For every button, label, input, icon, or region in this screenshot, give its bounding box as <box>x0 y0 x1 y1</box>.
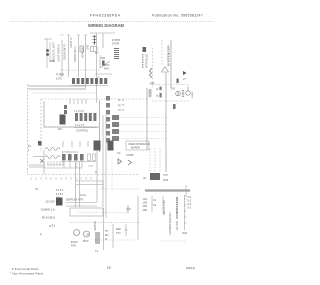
rotated label dispenser <box>167 45 171 66</box>
overload text <box>171 88 176 91</box>
dashed sense line <box>152 48 154 88</box>
wire stub <box>102 33 104 48</box>
bus line lower <box>28 88 86 90</box>
lamp L1 wire <box>44 39 52 68</box>
timer side text <box>143 177 146 180</box>
date code <box>186 266 195 270</box>
dotted drop <box>111 158 113 189</box>
defrost thermostat X <box>40 159 44 163</box>
signal text <box>128 143 150 150</box>
wire <box>112 224 114 248</box>
motor M letter <box>87 232 89 236</box>
dotted harness lines <box>119 118 166 139</box>
dashed bus right <box>150 84 190 86</box>
svg-text:CONTROL: CONTROL <box>76 130 89 133</box>
connector label block <box>56 73 64 81</box>
lamp L1 <box>46 49 49 56</box>
water valve bar <box>142 54 144 68</box>
svg-text:M: M <box>87 232 89 236</box>
board label <box>75 124 89 133</box>
defrost text <box>66 199 83 202</box>
right bus wire <box>146 88 148 150</box>
svg-text:FREEZER LIGHT: FREEZER LIGHT <box>53 42 56 62</box>
wire stub left <box>88 165 93 167</box>
svg-text:g 5 t: g 5 t <box>49 224 55 228</box>
svg-text:1a Fe: 1a Fe <box>80 194 87 197</box>
bracket with ticks <box>185 195 187 230</box>
label column door switch <box>64 44 67 60</box>
junction arrow <box>126 205 131 213</box>
svg-text:12 GA*: 12 GA* <box>45 200 56 204</box>
svg-text:BOARD: BOARD <box>131 147 140 150</box>
label column <box>87 44 90 50</box>
comp cluster text <box>117 152 134 157</box>
condenser fan motor M2 <box>186 87 190 96</box>
rotated text compressor <box>175 196 179 219</box>
wire <box>78 35 80 77</box>
wires into board <box>70 99 86 104</box>
wire shelf <box>95 73 112 75</box>
small blob <box>177 79 179 84</box>
wire riser <box>170 40 172 88</box>
wire <box>85 35 87 88</box>
mullion heater labels <box>112 39 120 46</box>
heater hatch block <box>114 49 119 59</box>
text box signal <box>126 141 149 150</box>
svg-text:16A: 16A <box>143 197 148 201</box>
svg-text:2GR: 2GR <box>182 232 187 235</box>
svg-text:4 3 2 1 6: 4 3 2 1 6 <box>75 124 85 127</box>
wire tick tops <box>61 34 88 36</box>
wire drop <box>103 208 105 250</box>
harness connector stack <box>112 115 119 141</box>
wire top rail <box>90 32 115 34</box>
switch S3 label <box>101 57 106 60</box>
svg-text:2 FC: 2 FC <box>56 77 62 81</box>
dashed bus right lower <box>152 100 190 102</box>
svg-text:6 1 8 7: 6 1 8 7 <box>56 193 64 196</box>
svg-text:2GR: 2GR <box>163 179 168 182</box>
svg-text:22D: 22D <box>143 208 148 212</box>
text block <box>104 64 110 71</box>
text col 2 <box>116 228 121 235</box>
connector row CN1 <box>72 78 107 84</box>
fan motor FM label <box>38 141 42 146</box>
page number <box>107 266 111 270</box>
label column freezer light <box>53 42 56 62</box>
hatch box <box>95 233 100 243</box>
svg-text:R-7: R-7 <box>95 52 100 55</box>
svg-text:CC: CC <box>117 152 121 155</box>
label 19A <box>150 82 155 85</box>
terminal block <box>91 47 98 52</box>
shaded floor line <box>145 189 190 191</box>
rotated text relay <box>162 200 166 215</box>
collector wire <box>44 167 82 169</box>
wire <box>68 35 70 77</box>
svg-text:TST: TST <box>116 232 121 235</box>
section labels <box>56 198 63 206</box>
svg-text:5 4 3 2: 5 4 3 2 <box>56 189 64 192</box>
control box left edge <box>40 99 42 152</box>
compressor motor M1 <box>176 91 181 96</box>
svg-text:COMP: COMP <box>126 154 134 157</box>
svg-text:59958: 59958 <box>192 91 194 98</box>
svg-text:TH: TH <box>105 230 109 233</box>
connector row CN3 <box>62 154 84 161</box>
heater element coil 2 <box>45 156 60 159</box>
trunk pair <box>76 162 80 207</box>
legend line 1 <box>45 200 56 204</box>
svg-text:2A1: 2A1 <box>171 88 176 91</box>
J-connector labels <box>118 99 125 112</box>
column wire <box>151 196 153 212</box>
wires double <box>66 203 97 207</box>
svg-text:MTR: MTR <box>83 240 89 243</box>
dotted element inside <box>78 212 127 214</box>
board right edge <box>99 100 101 152</box>
legend line 3 <box>42 216 55 220</box>
label column <box>74 46 77 62</box>
water valve label column <box>146 54 149 68</box>
dotted baseline <box>160 240 186 242</box>
publication number label <box>152 14 203 18</box>
wire <box>43 150 45 174</box>
label box lower left <box>94 141 101 151</box>
svg-text:COMPRESSOR: COMPRESSOR <box>175 196 179 219</box>
legend mark <box>40 233 42 237</box>
svg-text:* Non-Illustrated Parts: * Non-Illustrated Parts <box>10 272 44 276</box>
svg-text:FFHS2366PE4: FFHS2366PE4 <box>90 14 120 18</box>
svg-text:WIRING DIAGRAM: WIRING DIAGRAM <box>88 23 125 28</box>
svg-text:(04/12): (04/12) <box>186 266 195 270</box>
flag symbol <box>183 71 187 75</box>
heater element coil 1 <box>45 148 60 151</box>
small caps <box>64 105 67 114</box>
wire <box>165 72 167 172</box>
lamp wattage label <box>50 60 56 63</box>
right rotated label <box>192 91 194 98</box>
board connector row CN2 <box>75 113 96 121</box>
footer functional parts <box>12 267 39 271</box>
svg-text:[1]: [1] <box>143 177 146 180</box>
heater feed box top <box>76 181 103 189</box>
relay block K1 <box>60 115 66 125</box>
label 34 <box>35 188 38 191</box>
hook wire <box>185 185 187 197</box>
col text 2 <box>153 199 157 207</box>
run capacitor <box>160 87 162 98</box>
water valve blob <box>143 47 147 52</box>
heater box <box>70 208 103 216</box>
svg-text:SW: SW <box>101 57 106 60</box>
label 1aFe <box>80 194 87 197</box>
svg-text:WTR VALVE: WTR VALVE <box>146 54 149 68</box>
relay label <box>58 128 63 131</box>
svg-text:3 AWG L b: 3 AWG L b <box>41 208 56 212</box>
svg-text:8 7 6 5 4 3 2 1: 8 7 6 5 4 3 2 1 <box>62 151 79 154</box>
model number label <box>90 14 120 18</box>
svg-text:RLY: RLY <box>58 128 63 131</box>
svg-text:RELAY 120V: RELAY 120V <box>162 200 166 215</box>
title WIRING DIAGRAM <box>88 23 125 28</box>
wire w ticks <box>162 196 164 214</box>
svg-text:19: 19 <box>107 266 111 270</box>
motor label <box>83 240 89 243</box>
heater part numbers <box>28 145 31 152</box>
label column light switch <box>58 44 61 62</box>
svg-text:1 2 3 4 5: 1 2 3 4 5 <box>74 110 84 113</box>
right text col <box>188 196 192 210</box>
svg-text:LIGHT FF: LIGHT FF <box>70 36 73 48</box>
text col <box>105 230 109 241</box>
bottom tiny marks <box>95 250 99 253</box>
connector bracket <box>71 85 108 87</box>
svg-text:FAN: FAN <box>71 245 76 248</box>
fan label <box>71 241 78 248</box>
coil W1 <box>150 68 152 78</box>
fold line (dotted rule) <box>10 21 215 23</box>
dashed verticals bundle <box>150 148 166 172</box>
svg-text:SENSOR: SENSOR <box>82 47 85 58</box>
thermostat triangle <box>162 67 169 73</box>
svg-text:12B: 12B <box>143 201 148 205</box>
label box lower right <box>108 141 114 151</box>
label column dark <box>70 36 73 48</box>
line cord plug <box>93 35 97 45</box>
svg-text:DEF: DEF <box>116 228 121 231</box>
label column <box>82 47 85 58</box>
column text 1 <box>143 197 148 212</box>
svg-text:LIGHT SWITCH: LIGHT SWITCH <box>58 44 61 62</box>
component text 2 <box>156 88 159 98</box>
rotated text RC <box>175 221 179 230</box>
svg-text:W 6 OZ b: W 6 OZ b <box>42 216 55 220</box>
svg-text:CONDENSER FAN: CONDENSER FAN <box>168 213 172 235</box>
u mark <box>98 76 100 79</box>
double wire <box>29 165 45 167</box>
rotated label <box>94 221 97 231</box>
label 2 <box>183 77 186 81</box>
svg-text:DOOR SW FF: DOOR SW FF <box>74 46 77 62</box>
dashed feeder <box>33 92 97 94</box>
svg-text:Publication No. 5995581247: Publication No. 5995581247 <box>152 14 203 18</box>
J-connector stack <box>106 96 110 143</box>
terminal ticks row under cabinet <box>31 177 91 180</box>
R-7 label <box>95 52 100 55</box>
wire <box>61 40 63 77</box>
XTC label <box>163 174 168 182</box>
wire <box>137 196 139 240</box>
trunk wire pair long <box>103 115 106 218</box>
svg-text:M: M <box>105 238 107 241</box>
cabinet outline bottom edge <box>28 174 141 176</box>
dashed rail <box>70 222 140 224</box>
footer non-illustrated <box>10 272 44 276</box>
overload hatch <box>182 91 184 97</box>
connector row CN3 light cells <box>88 154 96 161</box>
svg-text:ER: ER <box>105 234 109 237</box>
defrost motor <box>84 231 90 237</box>
wire code rows <box>56 189 64 200</box>
wire <box>96 150 98 202</box>
svg-text:DEFROST HTR: DEFROST HTR <box>66 199 83 202</box>
svg-text:XTC: XTC <box>163 174 168 177</box>
K blob <box>102 61 105 66</box>
wire stubs <box>63 141 88 147</box>
evap fan motor <box>74 230 80 236</box>
control box top edge <box>41 98 150 100</box>
dotted bottom <box>95 239 135 241</box>
bus line upper <box>28 85 86 87</box>
wire <box>33 156 44 158</box>
pin numbers row <box>62 151 79 154</box>
switch S2 <box>80 46 84 52</box>
cabinet outline left edge <box>27 84 29 174</box>
switch S3 with throw <box>100 55 110 68</box>
svg-text:P: P <box>40 233 42 237</box>
pin number row <box>74 110 84 113</box>
svg-text:19C: 19C <box>143 204 148 208</box>
diode symbols <box>118 159 132 165</box>
svg-text:RC SIR: RC SIR <box>175 221 179 230</box>
junction blob <box>173 104 176 109</box>
dotted link line <box>100 188 140 190</box>
svg-text:HEATER: HEATER <box>94 221 97 231</box>
dashed line left <box>161 40 163 66</box>
wire <box>96 33 98 103</box>
sensor blob on bus <box>149 90 152 96</box>
svg-text:DISPENSER: DISPENSER <box>167 45 171 66</box>
dashed bus <box>60 69 100 71</box>
bracket under CN2 <box>74 127 97 129</box>
K label <box>95 171 97 174</box>
svg-text:LINE: LINE <box>87 44 90 50</box>
RC label <box>182 232 187 235</box>
svg-text:FAN: FAN <box>104 68 109 71</box>
comb bracket <box>47 161 63 165</box>
legend line 2 <box>41 208 56 212</box>
svg-text:5-1: 5-1 <box>188 207 192 210</box>
drop wires <box>64 162 82 168</box>
bracket under CN3 <box>61 161 96 163</box>
svg-text:# Functional Parts: # Functional Parts <box>12 267 39 271</box>
svg-text:DOOR: DOOR <box>112 43 119 46</box>
rotated text condenser <box>168 213 172 235</box>
svg-text:DOOR SW FZ: DOOR SW FZ <box>64 44 67 60</box>
hook line <box>124 224 128 236</box>
legend line 4 <box>49 224 55 228</box>
board solid outline <box>44 101 99 127</box>
defrost timer block <box>150 173 160 180</box>
